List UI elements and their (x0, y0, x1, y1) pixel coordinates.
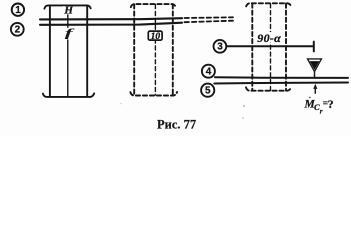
arrow pointing to rail R5 (313, 84, 317, 94)
frame F3 right side (285, 4, 287, 91)
frame F2 (dashed) top edge (131, 4, 176, 7)
svg-text:3: 3 (217, 42, 223, 53)
rail R2 (lower, solid) (40, 23, 182, 25)
label 90-alpha (255, 32, 284, 43)
speck noise (309, 97, 311, 99)
node 4 (circled label) (202, 65, 215, 78)
svg-text:4: 4 (206, 67, 212, 78)
frame F3 left side (251, 4, 253, 91)
support prism on rail R4 (308, 59, 322, 77)
rail R2 dashed continuation (185, 21, 234, 23)
frame F2 centre bar (154, 5, 156, 96)
rail R1 dashed continuation (185, 16, 234, 19)
frame F3 centre bar (270, 4, 272, 91)
measuring line end tick (313, 42, 315, 52)
svg-text:10: 10 (151, 32, 161, 42)
rail R1 (upper, solid) (40, 18, 182, 19)
frame F3 (dashed) top edge (246, 3, 291, 6)
node 2 (circled label) (11, 23, 24, 36)
svg-text:1: 1 (15, 5, 21, 16)
frame F2 bottom sill (130, 92, 177, 96)
label f (centre bar) (63, 28, 75, 40)
label H (frame height) (63, 6, 74, 14)
frame F1 right side (86, 6, 88, 97)
digits in circled labels (15, 5, 224, 97)
measuring line from node 3 (227, 45, 314, 47)
frame F2 left side (133, 4, 135, 95)
label M_Cr = ? (304, 97, 334, 115)
svg-text:5: 5 (205, 86, 211, 97)
frame F1 centre bar (67, 6, 69, 97)
figure: Рис. 77 mechanics diagram (0, 0, 351, 136)
node 3 (circled label) (214, 40, 227, 53)
frame F1 bottom sill (43, 93, 94, 97)
frame F1 left side (49, 6, 51, 97)
frame F3 bottom sill (246, 87, 291, 91)
svg-text:90-α: 90-α (257, 31, 281, 45)
svg-text:?: ? (328, 97, 334, 111)
svg-text:2: 2 (15, 25, 21, 36)
rail R5 (from node 5) (214, 83, 348, 84)
node 5 (circled label) (201, 84, 214, 97)
svg-text:H: H (63, 4, 73, 16)
node 1 (circled label) (12, 4, 24, 16)
box label 10 (148, 31, 162, 40)
svg-text:Рис. 77: Рис. 77 (157, 118, 196, 132)
frame F1 top edge (44, 5, 90, 8)
frame F2 right side (172, 4, 174, 95)
rail R4 (from node 4) (215, 76, 348, 79)
